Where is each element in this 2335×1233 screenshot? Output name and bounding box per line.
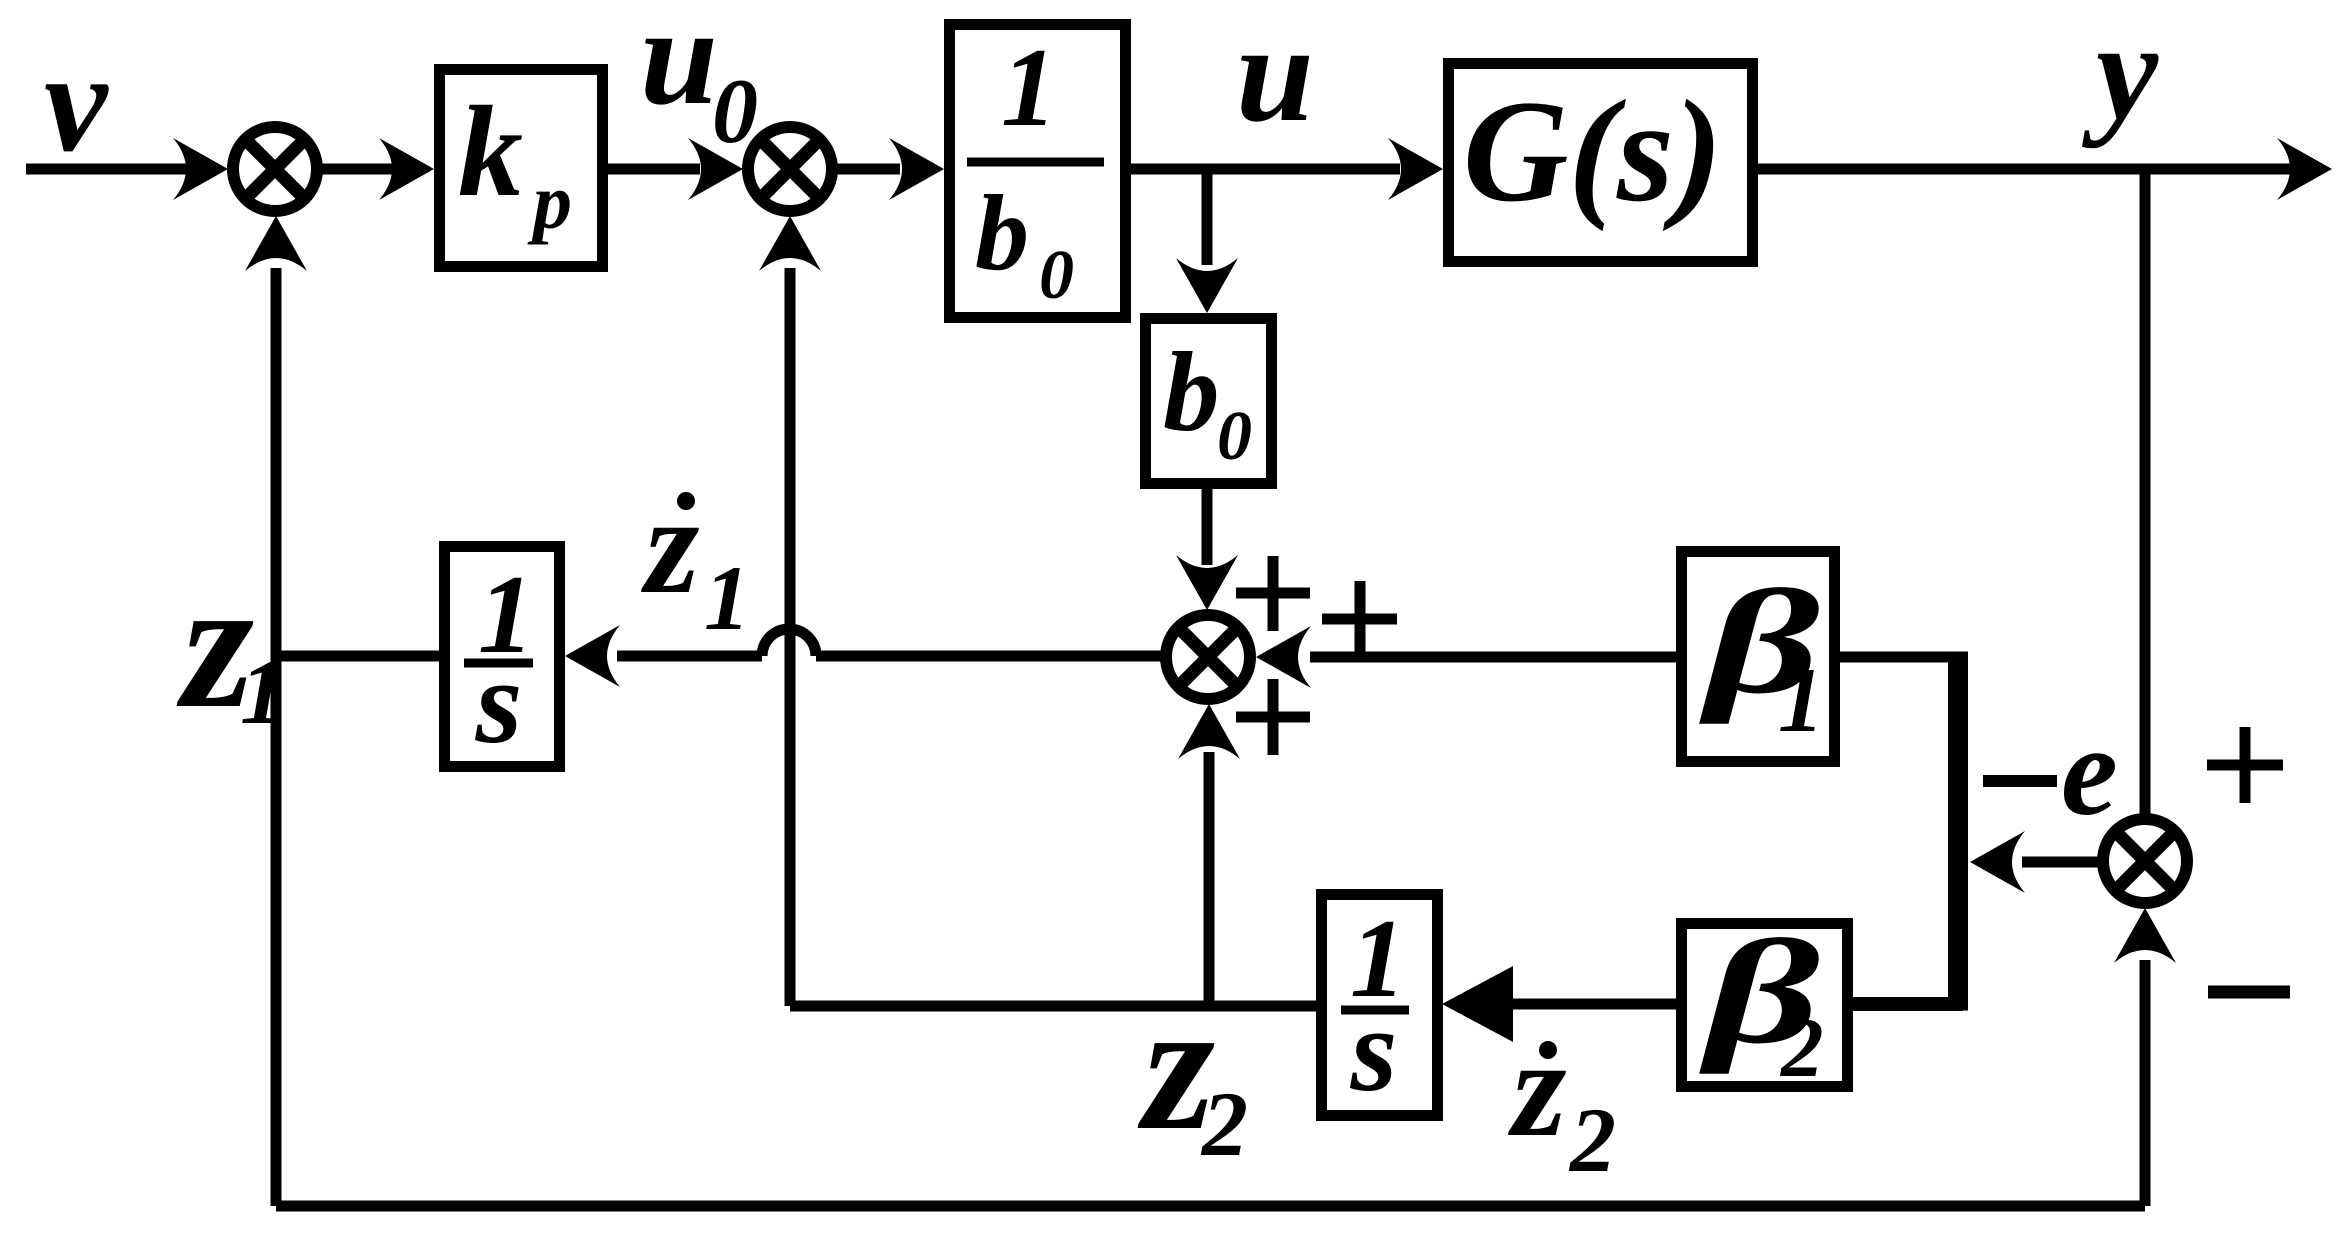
svg-text:G(s): G(s): [1463, 70, 1723, 232]
svg-text:s: s: [475, 635, 523, 768]
svg-text:0: 0: [1039, 237, 1074, 314]
svg-text:b: b: [975, 174, 1029, 293]
svg-text:1: 1: [704, 547, 750, 649]
svg-text:p: p: [527, 158, 572, 245]
svg-text:s: s: [1350, 983, 1398, 1116]
svg-text:z: z: [1508, 1011, 1566, 1166]
svg-text:b: b: [1163, 330, 1220, 455]
svg-text:u: u: [640, 0, 718, 134]
svg-text:0: 0: [1217, 398, 1252, 475]
svg-text:1: 1: [1778, 649, 1824, 751]
svg-text:z: z: [641, 468, 699, 623]
svg-text:u: u: [1236, 0, 1314, 151]
svg-text:e: e: [2061, 700, 2118, 842]
svg-text:2: 2: [1568, 1089, 1616, 1191]
svg-text:k: k: [458, 80, 523, 224]
svg-text:v: v: [44, 23, 109, 181]
svg-text:2: 2: [1779, 1001, 1824, 1095]
svg-text:1: 1: [1001, 26, 1057, 150]
svg-text:2: 2: [1200, 1073, 1248, 1175]
svg-text:0: 0: [712, 60, 758, 162]
svg-text:1: 1: [240, 641, 286, 743]
